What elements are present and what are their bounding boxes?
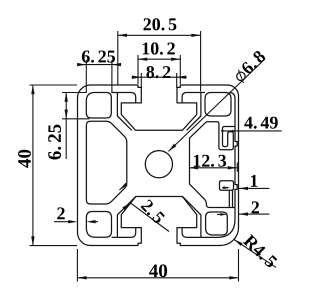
dim 1 leader — [222, 187, 269, 190]
dim 2.5 diagonal leader — [119, 184, 169, 231]
dim 10.2 — [138, 55, 180, 84]
top-left corner cavity — [86, 93, 111, 119]
text R4.5 label — [242, 234, 277, 269]
text 8.2 label — [146, 66, 170, 78]
text diameter 6.8 label — [233, 49, 268, 83]
text 6.25 top label — [82, 51, 115, 63]
boss right face with chamfers — [190, 122, 210, 208]
top wall inner throat left — [111, 93, 135, 103]
top slot left flange — [117, 93, 131, 131]
dim 8.2 — [141, 73, 176, 88]
lower right web line — [210, 207, 236, 209]
dim 2 right leader — [217, 213, 269, 215]
lower hook cap — [220, 181, 234, 191]
big left cavity — [86, 121, 126, 204]
text 4.49 label — [244, 117, 277, 129]
dim 40 left vertical — [30, 85, 78, 246]
text 12.3 label — [194, 155, 226, 167]
right wall inner surface with cover notches — [205, 93, 237, 238]
dim 4.49 — [223, 130, 282, 132]
bottom-left corner cavity — [86, 212, 111, 238]
hole diameter leader — [169, 59, 266, 152]
text 2 left label — [57, 207, 64, 219]
bottom slot right flange — [183, 197, 201, 238]
dim 12.3 — [236, 163, 238, 172]
central hole — [145, 151, 172, 178]
lower hook stem — [229, 190, 232, 207]
text 40 bottom label — [149, 264, 167, 277]
text 2 right label — [252, 201, 259, 213]
text 2.5 label — [140, 199, 165, 225]
text 1 label — [251, 175, 258, 187]
top wall inner throat right — [182, 93, 205, 103]
dim 20.5 top — [118, 31, 201, 92]
corner radius leader R4.5 — [234, 239, 276, 267]
profile outer boundary with T-slots top and bottom — [78, 85, 239, 246]
top-right corner cavity — [205, 93, 231, 117]
dim 6.25 top — [86, 60, 112, 93]
dim 2 left leader — [54, 221, 98, 223]
text 20.5 label — [144, 18, 177, 30]
dim 40 bottom — [77, 249, 238, 282]
top slot right flange — [187, 93, 201, 131]
bottom wall inner throat left — [112, 228, 136, 238]
dim 6.25 left vertical — [62, 93, 90, 119]
upper hook cover groove — [206, 122, 235, 150]
bottom slot left flange — [117, 197, 135, 238]
text 40 left label — [18, 150, 31, 168]
text 10.2 label — [143, 42, 175, 54]
bottom-right corner cavity — [206, 212, 228, 235]
text 6.25 left label — [48, 125, 61, 160]
bottom wall inner throat right — [182, 228, 205, 238]
